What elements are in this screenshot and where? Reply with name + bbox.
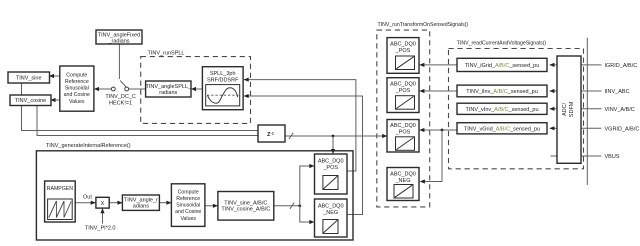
- box TINV_angle_radians: [122, 195, 159, 210]
- box TINV_iGrid_sensed_pu: [457, 58, 547, 71]
- wire iInv sensed to ABC_DQ0 POS 2: [420, 90, 457, 92]
- wire multiplier to angle box: [109, 202, 122, 204]
- wire ADC to iInv sensed: [550, 90, 557, 92]
- wire TINV_PI*2.0 to multiplier: [102, 209, 104, 224]
- svg-text:ABC_DQ0: ABC_DQ0: [318, 158, 344, 164]
- wire bottom NEG output to SPLL input 2: [244, 96, 363, 215]
- svg-text:adians: adians: [133, 204, 149, 210]
- svg-text:RAMPGEN: RAMPGEN: [47, 186, 73, 192]
- svg-text:_NEG: _NEG: [395, 178, 411, 184]
- node reference junction: [298, 204, 301, 207]
- svg-text:TINV_runSPLL: TINV_runSPLL: [148, 51, 185, 57]
- wire angleFixed drop: [118, 44, 120, 79]
- block RAMPGEN: [45, 181, 76, 222]
- wire theta drop to bottom POS: [332, 136, 334, 153]
- box TINV_sine: [8, 72, 50, 83]
- svg-text:Values: Values: [180, 216, 196, 222]
- switch contact left: [111, 87, 115, 91]
- svg-text:Reference: Reference: [176, 196, 200, 202]
- svg-text:TINV_vInv_A/B/C_sensed_pu: TINV_vInv_A/B/C_sensed_pu: [465, 107, 538, 113]
- wire RAMPGEN to multiplier: [75, 202, 95, 204]
- svg-text:SDFM: SDFM: [569, 101, 575, 117]
- svg-text:TINV_iGrid_A/B/C_sensed_pu: TINV_iGrid_A/B/C_sensed_pu: [465, 63, 540, 69]
- svg-text:ABC_DQ0: ABC_DQ0: [390, 82, 416, 88]
- switch lever: [120, 81, 126, 88]
- bus slash on reference wire: [290, 203, 294, 209]
- svg-text:TINV_DC_C: TINV_DC_C: [105, 94, 136, 100]
- box Z-1 delay: [258, 125, 285, 142]
- svg-text:TINV_generateInternalReference: TINV_generateInternalReference(): [46, 143, 131, 149]
- svg-text:Reference: Reference: [65, 79, 89, 85]
- svg-text:ABC_DQ0: ABC_DQ0: [390, 172, 416, 178]
- wire TINV_sine to Z-1: [22, 83, 259, 131]
- block multiplier X: [96, 197, 109, 208]
- switch contact right: [125, 87, 129, 91]
- wire Compute to TINV_cosine: [51, 99, 60, 101]
- block ABC_DQ0_POS (reference): [315, 154, 348, 194]
- svg-text:_POS: _POS: [395, 88, 411, 94]
- box TINV_sine_cosine_ABC: [218, 192, 274, 221]
- wire vGrid junction to ABC_DQ0 NEG 4: [420, 130, 442, 182]
- block ABC_DQ0_NEG 4 (vGrid): [387, 168, 419, 201]
- wire bottom POS output to SPLL input 1: [244, 80, 356, 171]
- svg-text:ABC_DQ0: ABC_DQ0: [390, 123, 416, 129]
- svg-text:TINV_cosine: TINV_cosine: [15, 98, 47, 104]
- wire VBUS input: [581, 155, 602, 157]
- block ADC/SDFM: [557, 56, 581, 163]
- box Compute Reference Sinusoidal and Cosine Values (top): [60, 66, 94, 111]
- box TINV_angleSPLL_radians: [146, 81, 192, 97]
- wire iGrid sensed to ABC_DQ0 POS 1: [420, 64, 457, 66]
- svg-text:ABC_DQ0: ABC_DQ0: [318, 203, 344, 209]
- dashed container TINV_runTransformOnSensedSignals: [377, 22, 469, 207]
- svg-text:ADC/: ADC/: [562, 102, 568, 116]
- box TINV_iInv_sensed_pu: [457, 85, 547, 97]
- svg-text:Sinusoidal: Sinusoidal: [65, 86, 89, 92]
- block ABC_DQ0_POS 1 (iGrid): [387, 38, 419, 74]
- svg-text:_POS: _POS: [395, 48, 411, 54]
- svg-text:TINV_iInv_A/B/C_sensed_pu: TINV_iInv_A/B/C_sensed_pu: [466, 89, 538, 95]
- svg-text:TINV_cosine_A/B/C: TINV_cosine_A/B/C: [221, 207, 270, 213]
- wire ADC to vGrid sensed: [550, 127, 557, 129]
- dashed container TINV_runSPLL: [141, 51, 251, 124]
- svg-text:SRF/DDSRF: SRF/DDSRF: [207, 77, 239, 83]
- svg-text:TINV_readCurrentAndVoltageSign: TINV_readCurrentAndVoltageSignals(): [457, 41, 547, 47]
- svg-text:X: X: [101, 201, 105, 207]
- wire angleSPLL to switch: [129, 88, 146, 90]
- svg-text:SPLL_3ph: SPLL_3ph: [210, 71, 236, 77]
- svg-text:Out: Out: [83, 195, 92, 201]
- box TINV_cosine: [10, 95, 51, 106]
- svg-text:_POS: _POS: [322, 165, 338, 171]
- svg-text:Compute: Compute: [66, 72, 87, 78]
- wire vertical input bus line: [586, 38, 588, 185]
- wire TINV_cosine to Z-1: [37, 106, 258, 136]
- svg-text:TINV_sine_A/B/C: TINV_sine_A/B/C: [224, 200, 267, 206]
- svg-text:TINV_PI*2.0: TINV_PI*2.0: [85, 225, 116, 231]
- container TINV_generateInternalReference: [36, 143, 353, 240]
- svg-text:ABC_DQ0: ABC_DQ0: [390, 42, 416, 48]
- svg-text:TINV_vGrid_A/B/C_sensed_pu: TINV_vGrid_A/B/C_sensed_pu: [464, 126, 540, 132]
- block ABC_DQ0_NEG (reference): [315, 199, 348, 237]
- wire IGRID input: [581, 64, 602, 66]
- wire ADC to iGrid sensed: [550, 64, 557, 66]
- wire ADC to vInv sensed: [550, 108, 557, 110]
- node theta junction: [332, 135, 335, 138]
- box TINV_angleFixed_radians: [96, 30, 142, 44]
- wire ADC vbus stub: [551, 155, 558, 157]
- svg-text:IGRID_A/B/C: IGRID_A/B/C: [605, 63, 638, 69]
- svg-text:IINV_ABC: IINV_ABC: [605, 89, 630, 95]
- svg-text:HECK!=1: HECK!=1: [109, 100, 132, 106]
- wire VGRID input: [581, 127, 602, 129]
- wire Compute to TINV_sine: [50, 75, 60, 77]
- svg-text:Sinusoidal: Sinusoidal: [176, 203, 200, 209]
- box TINV_vInv_sensed_pu: [457, 103, 547, 114]
- svg-text:TINV_sine: TINV_sine: [16, 76, 42, 82]
- block ABC_DQ0_POS 2 (iInv): [387, 78, 419, 113]
- box Compute Reference Sinusoidal and Cosine Values (bottom): [171, 184, 205, 227]
- svg-text:and Cosine: and Cosine: [175, 209, 201, 215]
- svg-text:VGRID_A/B/C: VGRID_A/B/C: [605, 126, 640, 132]
- block ABC_DQ0_POS 3 (vGrid): [387, 120, 419, 153]
- wire vGrid sensed to ABC_DQ0 POS 3: [420, 129, 457, 131]
- svg-text:radians: radians: [159, 90, 177, 96]
- svg-text:Values: Values: [69, 99, 85, 105]
- svg-text:VBUS: VBUS: [605, 154, 620, 160]
- box TINV_vGrid_sensed_pu: [457, 123, 547, 134]
- block SPLL_3ph SRF/DDSRF: [202, 67, 243, 110]
- svg-text:VINV_A/B/C: VINV_A/B/C: [605, 107, 635, 113]
- svg-text:_POS: _POS: [395, 130, 411, 136]
- svg-text:TINV_runTransformOnSensedSigna: TINV_runTransformOnSensedSignals(): [378, 22, 469, 28]
- svg-text:_NEG: _NEG: [322, 210, 338, 216]
- svg-text:_radians: _radians: [107, 38, 129, 44]
- wire junction to bottom NEG: [300, 206, 314, 222]
- wire IINV input: [581, 90, 602, 92]
- wire Z-1 theta to ABC_DQ0 blocks: [285, 135, 387, 137]
- dashed container TINV_readCurrentAndVoltageSignals: [449, 41, 584, 169]
- node vGrid junction: [441, 129, 444, 132]
- wire angle box to compute block: [159, 202, 171, 204]
- svg-text:and Cosine: and Cosine: [64, 92, 90, 98]
- wire SPLL to angleSPLL: [192, 88, 203, 90]
- wire VINV input: [581, 108, 602, 110]
- wire switch to Compute: [94, 88, 111, 90]
- svg-text:Compute: Compute: [178, 189, 199, 195]
- wire reference out: [274, 205, 300, 207]
- bus slash on theta wire: [289, 133, 293, 139]
- wire compute block to sine cosine box: [205, 205, 218, 207]
- wire junction to bottom POS: [300, 166, 314, 206]
